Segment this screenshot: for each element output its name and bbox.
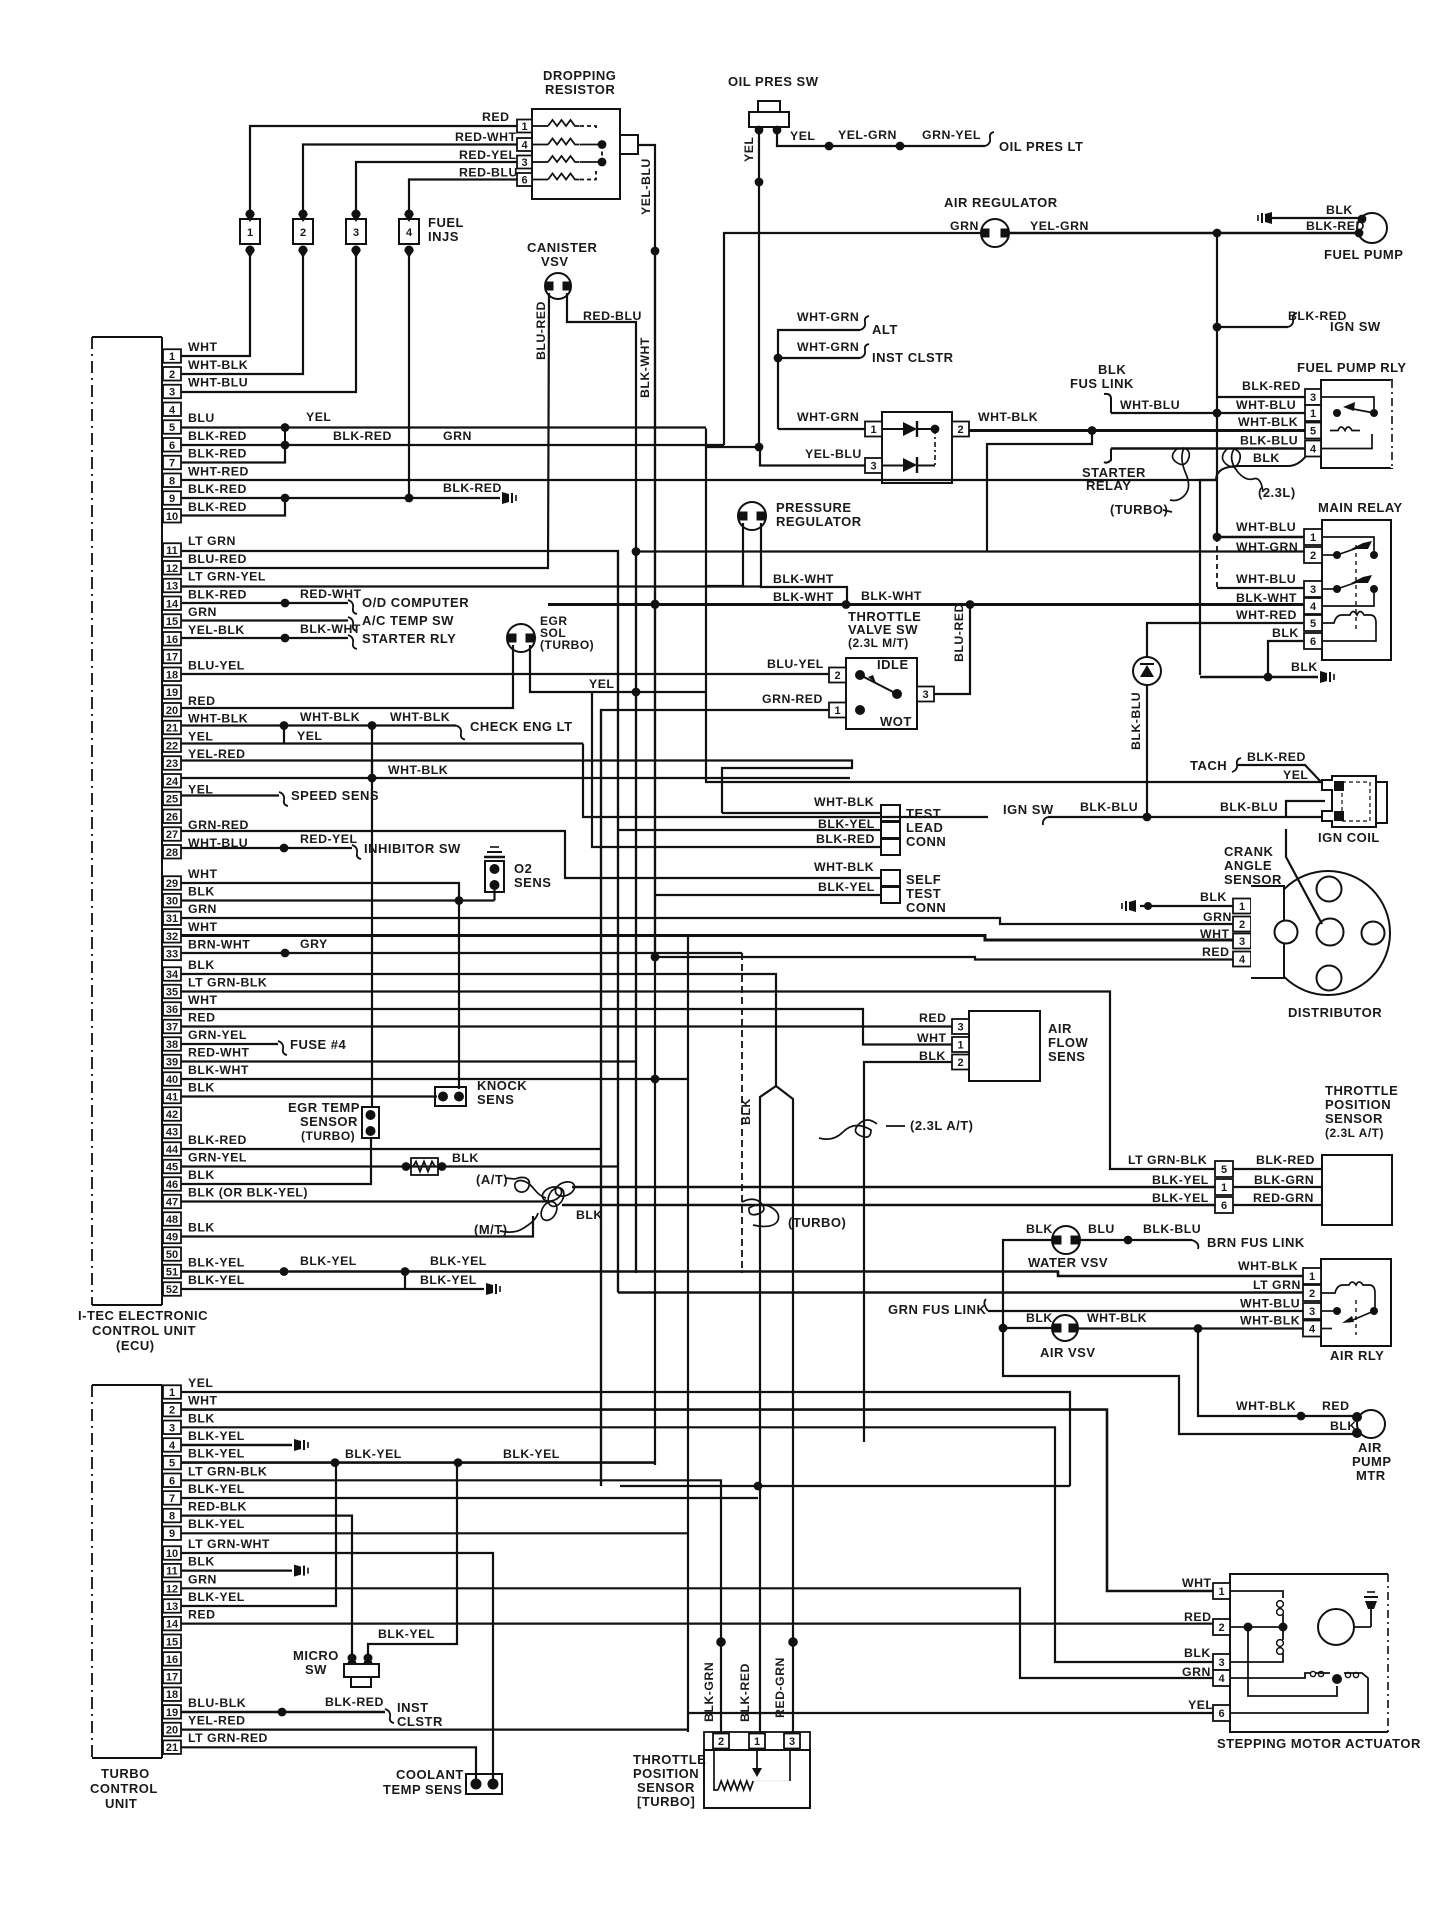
wire injector 3 to ECU pin 3 bbox=[181, 250, 356, 392]
svg-text:1: 1 bbox=[169, 1387, 175, 1399]
svg-text:BLK-WHT: BLK-WHT bbox=[861, 589, 922, 603]
stepping motor: motor circle bbox=[1318, 1609, 1354, 1645]
svg-text:YEL: YEL bbox=[1283, 768, 1308, 782]
svg-text:4: 4 bbox=[169, 404, 176, 416]
svg-text:COOLANT: COOLANT bbox=[396, 1767, 464, 1782]
svg-text:WHT-BLK: WHT-BLK bbox=[390, 710, 450, 724]
svg-text:29: 29 bbox=[166, 878, 178, 890]
wire GRN-RED ECU pin 27 to self test conn bbox=[181, 831, 881, 878]
svg-text:(TURBO): (TURBO) bbox=[788, 1215, 846, 1230]
dropping resistor pin 3 bbox=[517, 156, 532, 169]
svg-text:YEL: YEL bbox=[589, 677, 614, 691]
wire LT GRN to air rly pin 2 bbox=[618, 1291, 1303, 1294]
wire injector 1 to ECU pin 1 bbox=[181, 250, 250, 356]
svg-text:6: 6 bbox=[1221, 1200, 1227, 1212]
vertical bus x688 bbox=[687, 936, 689, 1732]
wire GRN ECU pin 15 to A/C temp sw bbox=[181, 619, 348, 621]
wire YEL to ign coil bbox=[706, 447, 1322, 782]
svg-text:INHIBITOR SW: INHIBITOR SW bbox=[364, 841, 461, 856]
svg-text:MAIN RELAY: MAIN RELAY bbox=[1318, 500, 1403, 515]
svg-text:16: 16 bbox=[166, 634, 178, 646]
svg-text:WHT: WHT bbox=[188, 993, 218, 1007]
wire RED to crank angle sensor pin 4 bbox=[655, 957, 1233, 960]
svg-text:STARTER RLY: STARTER RLY bbox=[362, 631, 456, 646]
fuel injector 4 bbox=[399, 219, 419, 244]
svg-text:IGN SW: IGN SW bbox=[1003, 802, 1054, 817]
wire BLK-YEL turbo pin 4 to ground bbox=[181, 1444, 292, 1447]
pressure regulator left pin wire bbox=[707, 523, 743, 586]
ECU pin 27 bbox=[163, 827, 181, 841]
wire BLK-YEL to self test conn bbox=[655, 894, 881, 896]
ECU pin 10 bbox=[163, 509, 181, 523]
svg-text:BLK: BLK bbox=[1326, 203, 1353, 217]
ECU pin 11 bbox=[163, 543, 181, 557]
svg-text:BLK-RED: BLK-RED bbox=[1256, 1153, 1315, 1167]
svg-text:STEPPING MOTOR ACTUATOR: STEPPING MOTOR ACTUATOR bbox=[1217, 1736, 1421, 1751]
wire BLK ECU pin 41 to knock sens bbox=[181, 1095, 437, 1097]
ECU pin 28 bbox=[163, 845, 181, 859]
svg-text:THROTTLE: THROTTLE bbox=[633, 1752, 706, 1767]
(2.3L A/T) squiggle bbox=[819, 1120, 877, 1139]
svg-text:SENSOR: SENSOR bbox=[300, 1114, 358, 1129]
svg-text:4: 4 bbox=[1239, 954, 1246, 966]
svg-text:CANISTER: CANISTER bbox=[527, 240, 598, 255]
svg-text:3: 3 bbox=[169, 1422, 175, 1434]
svg-text:SELF: SELF bbox=[906, 872, 941, 887]
svg-text:(TURBO): (TURBO) bbox=[301, 1129, 355, 1143]
svg-text:PUMP: PUMP bbox=[1352, 1454, 1392, 1469]
svg-text:4: 4 bbox=[169, 1440, 176, 1452]
svg-text:YEL-GRN: YEL-GRN bbox=[1030, 219, 1089, 233]
svg-text:BLK-RED: BLK-RED bbox=[188, 587, 247, 601]
svg-text:3: 3 bbox=[957, 1022, 963, 1034]
svg-text:2: 2 bbox=[300, 227, 306, 239]
svg-text:6: 6 bbox=[1310, 636, 1316, 648]
wire WHT-BLK / RED to air pump bbox=[1198, 1329, 1357, 1417]
wire RED turbo pin 14 to stepping motor pin 2 bbox=[181, 1622, 1213, 1624]
svg-text:WHT-BLK: WHT-BLK bbox=[978, 410, 1038, 424]
ECU pin 46 bbox=[163, 1177, 181, 1191]
svg-text:7: 7 bbox=[169, 1493, 175, 1505]
throttle valve sw pin 3 bbox=[917, 687, 934, 702]
svg-text:POSITION: POSITION bbox=[633, 1766, 699, 1781]
svg-text:BLK-RED: BLK-RED bbox=[333, 429, 392, 443]
svg-text:6: 6 bbox=[169, 1475, 175, 1487]
wire GRN-YEL ECU pin 45 through resistor bbox=[181, 1165, 618, 1167]
svg-text:2: 2 bbox=[1310, 550, 1316, 562]
turbo control unit right edge bbox=[161, 1385, 163, 1758]
ECU pin 29 bbox=[163, 876, 181, 890]
svg-text:GRN: GRN bbox=[188, 902, 217, 916]
TPS turbo wiper arrow bbox=[756, 1750, 758, 1768]
wire YEL / YEL-GRN / GRN-YEL to oil pres lt bbox=[777, 130, 985, 146]
svg-text:5: 5 bbox=[1221, 1164, 1227, 1176]
wire WHT turbo pin 2 to stepping motor pin 1 bbox=[181, 1410, 1213, 1591]
svg-text:BLK-YEL: BLK-YEL bbox=[188, 1447, 245, 1461]
ECU pin 47 bbox=[163, 1195, 181, 1209]
test lead connector bbox=[881, 805, 900, 821]
wire BLK-RED riser bbox=[592, 692, 881, 847]
diode block pin 2 bbox=[952, 422, 969, 437]
svg-text:LEAD: LEAD bbox=[906, 820, 943, 835]
svg-text:33: 33 bbox=[166, 948, 178, 960]
svg-text:AIR VSV: AIR VSV bbox=[1040, 1345, 1096, 1360]
dropping resistor pin 1 bbox=[517, 120, 532, 133]
svg-text:20: 20 bbox=[166, 705, 178, 717]
ECU pin 22 bbox=[163, 739, 181, 753]
svg-text:BLK-RED: BLK-RED bbox=[738, 1663, 752, 1722]
svg-text:1: 1 bbox=[957, 1040, 963, 1052]
svg-text:WHT-GRN: WHT-GRN bbox=[797, 340, 859, 354]
svg-text:SENS: SENS bbox=[514, 875, 551, 890]
svg-text:INST: INST bbox=[397, 1700, 429, 1715]
svg-text:BLU-RED: BLU-RED bbox=[188, 552, 247, 566]
svg-text:51: 51 bbox=[166, 1267, 178, 1279]
svg-text:AIR RLY: AIR RLY bbox=[1330, 1348, 1384, 1363]
wire BLK-YEL ECU pin 51 to air rly pin 1 bbox=[181, 1272, 1303, 1277]
svg-text:1: 1 bbox=[247, 227, 253, 239]
svg-text:BLK-RED: BLK-RED bbox=[443, 481, 502, 495]
svg-text:BLK: BLK bbox=[188, 1081, 215, 1095]
svg-text:SW: SW bbox=[305, 1662, 327, 1677]
svg-text:WHT-BLK: WHT-BLK bbox=[814, 795, 874, 809]
svg-text:32: 32 bbox=[166, 931, 178, 943]
svg-text:SENS: SENS bbox=[477, 1092, 514, 1107]
main relay pin 1 bbox=[1304, 529, 1322, 545]
svg-text:POSITION: POSITION bbox=[1325, 1097, 1391, 1112]
wire RED ECU pin 37 to air flow sens pin 3 bbox=[181, 1025, 952, 1027]
svg-text:WHT-RED: WHT-RED bbox=[1236, 608, 1297, 622]
wire LT GRN-BLK ECU pin 35 to TPS bbox=[181, 992, 1215, 1170]
svg-text:BLK-WHT: BLK-WHT bbox=[1236, 591, 1297, 605]
svg-text:39: 39 bbox=[166, 1057, 178, 1069]
svg-text:BLU: BLU bbox=[188, 411, 215, 425]
wire WHT ECU pin 36 to air flow sens pin 1 bbox=[181, 1009, 952, 1045]
svg-text:WHT-BLK: WHT-BLK bbox=[1240, 1314, 1300, 1328]
wire YEL-BLU from ECU pin 5 via jog bbox=[706, 429, 760, 448]
wire BLK-YEL turbo pin 9 bbox=[181, 1532, 688, 1534]
svg-text:YEL: YEL bbox=[1188, 1698, 1213, 1712]
svg-text:2: 2 bbox=[957, 424, 963, 436]
svg-text:13: 13 bbox=[166, 581, 178, 593]
ECU pin 42 bbox=[163, 1107, 181, 1121]
wire BLK ECU pin 49 up to M/T connector bbox=[181, 1216, 533, 1237]
svg-text:BLU-YEL: BLU-YEL bbox=[188, 658, 245, 672]
wire to air vsv and air rly pin 4 bbox=[1003, 1327, 1053, 1329]
ECU pin 35 bbox=[163, 985, 181, 999]
wire WHT-BLU main relay pin 1 bbox=[1217, 536, 1304, 539]
wire BLK turbo pin 3 to stepping motor pin 3 bbox=[181, 1427, 1213, 1662]
svg-text:TACH: TACH bbox=[1190, 758, 1227, 773]
svg-text:46: 46 bbox=[166, 1179, 178, 1191]
wire BLK-YEL turbo pin 13 up to pin 5 wire bbox=[181, 1463, 336, 1606]
wire O/D COMPUTER from ECU pin 14 bbox=[181, 602, 348, 604]
svg-text:4: 4 bbox=[521, 140, 528, 152]
main relay pin 5 bbox=[1304, 615, 1322, 631]
svg-text:CONN: CONN bbox=[906, 900, 946, 915]
svg-text:BLK: BLK bbox=[1291, 660, 1318, 674]
svg-text:WHT-BLK: WHT-BLK bbox=[1236, 1399, 1296, 1413]
stray jumper wire near x=600 bbox=[620, 1485, 1070, 1487]
svg-text:38: 38 bbox=[166, 1039, 178, 1051]
wire BRN-WHT/GRY ECU pin 33 bbox=[181, 952, 742, 954]
ECU pin 34 bbox=[163, 967, 181, 981]
svg-text:INST CLSTR: INST CLSTR bbox=[872, 350, 954, 365]
svg-text:BLK-GRN: BLK-GRN bbox=[1254, 1173, 1314, 1187]
wire injector 4 down to pin 9 wire bbox=[408, 250, 410, 498]
svg-text:YEL-GRN: YEL-GRN bbox=[838, 128, 897, 142]
svg-text:BLK-RED: BLK-RED bbox=[188, 500, 247, 514]
fuel pump relay pin 1 bbox=[1305, 405, 1321, 421]
svg-text:GRN: GRN bbox=[188, 1572, 217, 1586]
svg-text:RED: RED bbox=[188, 694, 215, 708]
air VSV bbox=[1052, 1315, 1078, 1341]
air rly internals bbox=[1321, 1282, 1375, 1293]
svg-text:GRN-RED: GRN-RED bbox=[762, 692, 823, 706]
ECU pin 3 bbox=[163, 385, 181, 399]
svg-text:RED: RED bbox=[1322, 1399, 1349, 1413]
svg-text:VSV: VSV bbox=[541, 254, 569, 269]
svg-text:BLK: BLK bbox=[188, 1168, 215, 1182]
svg-text:WHT-BLU: WHT-BLU bbox=[1120, 398, 1180, 412]
svg-text:GRN: GRN bbox=[188, 605, 217, 619]
svg-text:LT GRN-WHT: LT GRN-WHT bbox=[188, 1537, 270, 1551]
svg-text:RED: RED bbox=[482, 110, 509, 124]
svg-text:2: 2 bbox=[1218, 1622, 1224, 1634]
svg-text:21: 21 bbox=[166, 1742, 178, 1754]
wire injector 2 to ECU pin 2 bbox=[181, 250, 303, 374]
vertical bus x601 bbox=[600, 710, 602, 1486]
svg-text:3: 3 bbox=[353, 227, 359, 239]
turbo control unit pin 8 bbox=[163, 1509, 181, 1523]
svg-text:RED: RED bbox=[188, 1608, 215, 1622]
diode block pin 1 bbox=[865, 422, 882, 437]
turbo control unit pin 18 bbox=[163, 1687, 181, 1701]
svg-text:WHT: WHT bbox=[188, 920, 218, 934]
svg-text:4: 4 bbox=[1310, 601, 1317, 613]
wire RED ECU pin 20 to EGR sol bbox=[181, 645, 513, 708]
starter relay tap bbox=[1104, 449, 1111, 463]
fuel injector 1 bbox=[240, 219, 260, 244]
svg-text:WHT: WHT bbox=[188, 1394, 218, 1408]
wire BLK-RED ECU pin 7 bbox=[181, 445, 285, 463]
wire LT GRN-YEL ECU pin 13 joining pressure regulator line bbox=[181, 585, 761, 587]
ECU pin 17 bbox=[163, 650, 181, 664]
knock sensor bbox=[435, 1087, 466, 1106]
ign coil connector bbox=[1322, 776, 1376, 827]
wire EGR temp sensor to ECU pin 46 bbox=[181, 1138, 371, 1184]
svg-text:CONTROL: CONTROL bbox=[90, 1781, 158, 1796]
svg-text:FUEL: FUEL bbox=[428, 215, 464, 230]
svg-text:14: 14 bbox=[166, 598, 179, 610]
svg-text:RED-WHT: RED-WHT bbox=[455, 130, 517, 144]
svg-text:36: 36 bbox=[166, 1004, 178, 1016]
wire BLK from M/T connector to TPS pin 6 bbox=[562, 1204, 1215, 1207]
svg-text:3: 3 bbox=[870, 461, 876, 473]
O2 sensor bbox=[485, 861, 504, 892]
svg-text:BLK-YEL: BLK-YEL bbox=[1152, 1173, 1209, 1187]
svg-text:SPEED SENS: SPEED SENS bbox=[291, 788, 379, 803]
ECU pin 15 bbox=[163, 614, 181, 628]
wire BLK-RED to test lead conn bbox=[530, 691, 592, 693]
ECU pin 24 bbox=[163, 774, 181, 788]
turbo control unit pin 15 bbox=[163, 1635, 181, 1649]
svg-text:BLK-WHT: BLK-WHT bbox=[188, 1063, 249, 1077]
ECU pin 45 bbox=[163, 1160, 181, 1174]
svg-text:34: 34 bbox=[166, 969, 179, 981]
svg-text:BLU-YEL: BLU-YEL bbox=[767, 657, 824, 671]
svg-text:2: 2 bbox=[718, 1736, 724, 1748]
turbo control unit pin 13 bbox=[163, 1599, 181, 1613]
canister VSV bbox=[545, 273, 571, 299]
svg-text:(2.3L M/T): (2.3L M/T) bbox=[848, 636, 909, 650]
svg-text:19: 19 bbox=[166, 687, 178, 699]
ECU pin 44 bbox=[163, 1142, 181, 1156]
wire RED-BLK turbo pin 8 to micro switch bbox=[181, 1516, 352, 1655]
ECU pin 33 bbox=[163, 947, 181, 961]
ECU connector right edge bbox=[161, 337, 163, 1305]
svg-text:RED: RED bbox=[1184, 1610, 1211, 1624]
svg-text:24: 24 bbox=[166, 776, 179, 788]
svg-text:GRN FUS LINK: GRN FUS LINK bbox=[888, 1302, 987, 1317]
turbo control unit pin 17 bbox=[163, 1670, 181, 1684]
ECU pin 8 bbox=[163, 474, 181, 488]
TPS turbo pin row bbox=[704, 1732, 810, 1750]
svg-text:1: 1 bbox=[1221, 1182, 1227, 1194]
svg-text:1: 1 bbox=[1310, 532, 1316, 544]
wire YEL-RED turbo pin 20 bbox=[181, 1728, 688, 1730]
svg-text:BLK-YEL: BLK-YEL bbox=[188, 1429, 245, 1443]
svg-text:VALVE SW: VALVE SW bbox=[848, 622, 918, 637]
svg-text:(TURBO): (TURBO) bbox=[540, 638, 594, 652]
svg-text:(2.3L A/T): (2.3L A/T) bbox=[910, 1118, 974, 1133]
svg-text:(2.3L): (2.3L) bbox=[1258, 485, 1296, 500]
svg-text:BLU-RED: BLU-RED bbox=[952, 603, 966, 662]
svg-text:BLK-BLU: BLK-BLU bbox=[1220, 800, 1278, 814]
svg-text:BLK-YEL: BLK-YEL bbox=[1152, 1191, 1209, 1205]
throttle valve sw pin 1 bbox=[829, 703, 846, 718]
fuel pump bbox=[1357, 213, 1387, 243]
svg-text:WHT: WHT bbox=[188, 867, 218, 881]
svg-text:GRN-YEL: GRN-YEL bbox=[922, 128, 981, 142]
svg-text:MICRO: MICRO bbox=[293, 1648, 339, 1663]
ground + BLK wire crank pin 1 bbox=[1129, 900, 1136, 912]
svg-text:BLK-RED: BLK-RED bbox=[1306, 219, 1365, 233]
svg-text:17: 17 bbox=[166, 652, 178, 664]
ECU pin 32 bbox=[163, 929, 181, 943]
svg-text:12: 12 bbox=[166, 563, 178, 575]
svg-text:TEMP SENS: TEMP SENS bbox=[383, 1782, 462, 1797]
svg-text:41: 41 bbox=[166, 1092, 178, 1104]
fuel pump relay pin 5 bbox=[1305, 423, 1321, 439]
svg-text:BLK (OR BLK-YEL): BLK (OR BLK-YEL) bbox=[188, 1186, 308, 1200]
air relay bbox=[1321, 1259, 1391, 1346]
svg-text:LT GRN-BLK: LT GRN-BLK bbox=[188, 1464, 267, 1478]
wire BLK water VSV down to air VSV line bbox=[1003, 1240, 1053, 1328]
ECU pin 37 bbox=[163, 1020, 181, 1034]
svg-text:BLK: BLK bbox=[1272, 626, 1299, 640]
wire WHT-GRN main relay pin 2 from canister line bbox=[636, 550, 1304, 552]
wire BLK-RED ECU pin 10 bbox=[181, 498, 285, 516]
svg-text:(ECU): (ECU) bbox=[116, 1338, 155, 1353]
svg-text:LT GRN-BLK: LT GRN-BLK bbox=[1128, 1153, 1207, 1167]
svg-text:RED: RED bbox=[1202, 945, 1229, 959]
svg-text:LT GRN: LT GRN bbox=[188, 534, 236, 548]
ECU pin 31 bbox=[163, 911, 181, 925]
ECU pin 19 bbox=[163, 685, 181, 699]
wire LT GRN-WHT turbo pin 10 to coolant temp sens bbox=[181, 1553, 493, 1779]
fork split to two branches bbox=[760, 1086, 776, 1740]
svg-text:1: 1 bbox=[521, 121, 527, 133]
turbo control unit pin 3 bbox=[163, 1421, 181, 1435]
svg-text:48: 48 bbox=[166, 1214, 178, 1226]
svg-text:40: 40 bbox=[166, 1074, 178, 1086]
svg-text:3: 3 bbox=[1239, 936, 1245, 948]
wire LT GRN ECU pin 11 bbox=[181, 551, 618, 1293]
svg-text:FUSE #4: FUSE #4 bbox=[290, 1037, 347, 1052]
wire YEL ECU pin 25 to speed sens bbox=[181, 794, 279, 796]
svg-text:2: 2 bbox=[1239, 919, 1245, 931]
svg-text:RED-BLK: RED-BLK bbox=[188, 1500, 247, 1514]
wire BLU-YEL ECU pin 18 to throttle valve sw bbox=[181, 673, 829, 675]
wire from ign coil down to distributor rotor bbox=[1286, 829, 1322, 924]
wire BLK-RED ECU pin 44 bbox=[181, 1148, 601, 1150]
svg-text:BLK-RED: BLK-RED bbox=[1242, 379, 1301, 393]
ECU pin 18 bbox=[163, 668, 181, 682]
svg-text:WHT-BLK: WHT-BLK bbox=[188, 358, 248, 372]
wire WHT-RED main relay pin 5 to lamp bbox=[1147, 623, 1304, 658]
turbo control unit pin 19 bbox=[163, 1705, 181, 1719]
EGR solenoid (turbo) bbox=[507, 624, 535, 652]
fuel pump relay pin 4 bbox=[1305, 441, 1321, 457]
svg-text:THROTTLE: THROTTLE bbox=[1325, 1083, 1398, 1098]
svg-text:14: 14 bbox=[166, 1619, 179, 1631]
svg-text:O/D COMPUTER: O/D COMPUTER bbox=[362, 595, 469, 610]
ECU pin 36 bbox=[163, 1002, 181, 1016]
svg-text:WHT: WHT bbox=[188, 340, 218, 354]
svg-text:26: 26 bbox=[166, 811, 178, 823]
turbo control unit pin 4 bbox=[163, 1438, 181, 1452]
svg-text:BLK-RED: BLK-RED bbox=[188, 1133, 247, 1147]
svg-text:BLK-YEL: BLK-YEL bbox=[188, 1482, 245, 1496]
svg-text:DISTRIBUTOR: DISTRIBUTOR bbox=[1288, 1005, 1382, 1020]
svg-text:EGR TEMP: EGR TEMP bbox=[288, 1100, 360, 1115]
svg-text:YEL: YEL bbox=[742, 137, 756, 162]
turbo control unit pin 21 bbox=[163, 1740, 181, 1754]
wire BLU-RED throttle pin 3 up to BLK-WHT bus bbox=[934, 605, 970, 695]
dropping resistor box bbox=[532, 109, 620, 199]
ECU pin 6 bbox=[163, 438, 181, 452]
throttle valve sw pin 2 bbox=[829, 668, 846, 683]
wire LT GRN-RED turbo pin 21 to coolant temp sens bbox=[181, 1747, 476, 1779]
svg-text:WHT-BLK: WHT-BLK bbox=[1238, 1259, 1298, 1273]
svg-text:WHT-GRN: WHT-GRN bbox=[797, 410, 859, 424]
svg-text:23: 23 bbox=[166, 758, 178, 770]
svg-text:BLK-GRN: BLK-GRN bbox=[702, 1662, 716, 1722]
svg-text:BLK-YEL: BLK-YEL bbox=[503, 1447, 560, 1461]
wire YEL-GRN air regulator to fuel pump bbox=[1009, 232, 1358, 235]
svg-text:WHT: WHT bbox=[1200, 927, 1230, 941]
svg-text:1: 1 bbox=[169, 351, 175, 363]
wire CHECK ENG LT from ECU pin 21 bbox=[181, 724, 456, 726]
wire BLK-YEL to test lead conn bbox=[618, 829, 881, 831]
ECU pin 2 bbox=[163, 367, 181, 381]
svg-text:1: 1 bbox=[1309, 1271, 1315, 1283]
pressure regulator bbox=[738, 502, 766, 530]
svg-text:IGN SW: IGN SW bbox=[1330, 319, 1381, 334]
svg-text:RED-WHT: RED-WHT bbox=[300, 587, 362, 601]
svg-text:27: 27 bbox=[166, 829, 178, 841]
